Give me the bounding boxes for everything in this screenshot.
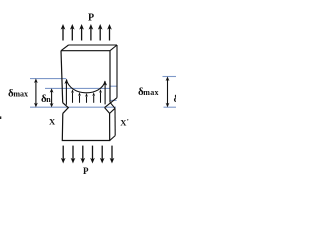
- upper bar: front face outline: [61, 51, 110, 103]
- upper bar: right side face edge: [116, 45, 118, 98]
- blue reference line 3 (section X-X'): [30, 106, 116, 108]
- tall stress arrow right: [104, 84, 106, 105]
- left notch (front): [63, 103, 69, 114]
- small stress arrows under curve: [73, 92, 101, 103]
- blue reference line 1 (sigma-max level): [30, 78, 66, 80]
- svg-text:P: P: [88, 13, 94, 24]
- upper bar: top face: [61, 45, 117, 51]
- top load arrows (6, pointing up): [63, 28, 110, 41]
- svg-text:X: X: [49, 116, 56, 126]
- svg-text:δ: δ: [174, 93, 177, 105]
- blue reference line 2 (sigma-n level): [45, 87, 110, 89]
- dimension arrow delta-max (left figure): [35, 81, 37, 105]
- svg-text:n: n: [46, 95, 51, 104]
- right partial figure: dimension arrow delta-max: [167, 79, 169, 105]
- stray ink speck at left edge: [0, 116, 1, 119]
- lower bar: front face: [62, 113, 109, 140]
- right partial figure: blue line top: [163, 76, 177, 78]
- svg-text:max: max: [13, 89, 28, 98]
- lower bar: back right edge: [114, 108, 116, 135]
- blue side-face segment upper: [110, 85, 117, 87]
- bottom load arrows (6, pointing down): [63, 146, 112, 160]
- svg-text:max: max: [143, 88, 159, 97]
- svg-text:’: ’: [127, 118, 129, 125]
- svg-text:P: P: [83, 166, 89, 176]
- right notch cluster (front + back, X and diamond): [105, 98, 117, 114]
- dimension arrow delta-n: [51, 91, 53, 105]
- lower bar: bottom right diagonal: [110, 136, 116, 141]
- blue side-face segment lower: [111, 99, 117, 101]
- tall stress arrow left: [65, 82, 67, 105]
- stress distribution curve: [66, 79, 105, 92]
- right partial figure: blue line bottom: [164, 106, 177, 108]
